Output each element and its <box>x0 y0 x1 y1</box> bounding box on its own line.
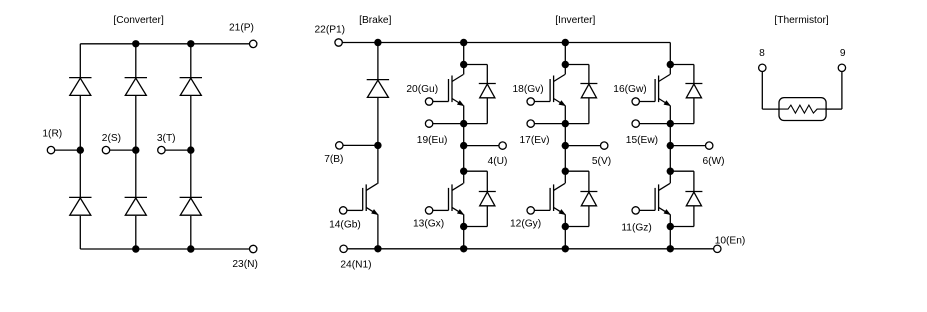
terminal 11(Gz) gate <box>632 207 639 214</box>
node W emitter junction <box>667 120 674 127</box>
wire W lower IGBT emitter stub <box>669 214 671 226</box>
svg-text:5(V): 5(V) <box>592 156 611 167</box>
wire V lower diode branch top <box>565 170 589 172</box>
wire thermistor left <box>761 72 763 110</box>
svg-text:3(T): 3(T) <box>157 133 176 144</box>
wire U upper IGBT emitter stub <box>463 106 465 124</box>
terminal 22(P1) <box>335 39 342 46</box>
svg-text:19(Eu): 19(Eu) <box>417 135 448 146</box>
wire U upper IGBT collector stub <box>463 65 465 75</box>
node U lower emitter junction <box>460 223 467 230</box>
wire converter S leg upper <box>135 44 137 78</box>
wire thermistor right <box>826 108 842 110</box>
terminal 15(Ew) emitter sense <box>632 120 639 127</box>
terminal 20(Gu) gate <box>425 98 432 105</box>
wire W upper IGBT collector stub <box>669 65 671 75</box>
wire V leg from P rail <box>564 43 566 65</box>
svg-text:15(Ew): 15(Ew) <box>626 135 658 146</box>
svg-text:22(P1): 22(P1) <box>315 25 346 36</box>
wire W leg emitter to phase node <box>669 124 671 146</box>
node converter N rail junction S leg <box>132 245 139 252</box>
wire converter S leg middle <box>135 95 137 197</box>
terminal 18(Gv) gate <box>527 98 534 105</box>
terminal 13(Gx) gate <box>425 207 432 214</box>
wire converter S leg bottom <box>135 216 137 249</box>
node N rail junction V leg <box>562 245 569 252</box>
svg-text:2(S): 2(S) <box>102 133 121 144</box>
wire U lower IGBT collector stub <box>463 171 465 183</box>
svg-text:11(Gz): 11(Gz) <box>621 222 651 233</box>
wire P1 rail <box>342 42 670 44</box>
wire V upper IGBT emitter stub <box>564 106 566 124</box>
wire V upper IGBT collector stub <box>564 65 566 75</box>
terminal 24(N1) <box>340 245 347 252</box>
wire W leg to N rail <box>669 227 671 249</box>
wire V upper diode branch bottom <box>588 98 590 124</box>
wire converter R leg upper <box>79 44 81 78</box>
svg-text:24(N1): 24(N1) <box>340 260 371 271</box>
terminal 17(Ev) emitter sense <box>527 120 534 127</box>
diode freewheel upper W <box>685 84 702 98</box>
wire 1(R) to R leg <box>55 149 81 151</box>
wire U upper diode branch bottom <box>486 98 488 124</box>
wire U leg phase to lower collector <box>463 146 465 172</box>
wire converter R leg middle <box>79 95 81 197</box>
wire U leg to N rail <box>463 227 465 249</box>
terminal 5(V) phase output <box>601 142 608 149</box>
node U emitter junction <box>460 120 467 127</box>
svg-text:10(En): 10(En) <box>715 235 746 246</box>
svg-text:18(Gv): 18(Gv) <box>513 84 544 95</box>
wire converter T leg bottom <box>190 216 192 249</box>
svg-text:6(W): 6(W) <box>703 156 725 167</box>
node W phase output junction <box>667 142 674 149</box>
diode converter upper S <box>125 78 147 96</box>
node W lower collector junction <box>667 168 674 175</box>
wire 17(Ev) to emitter node <box>534 123 565 125</box>
diode freewheel lower V <box>580 192 597 206</box>
node V upper collector junction <box>562 61 569 68</box>
wire V lower diode branch bottom <box>588 206 590 227</box>
wire W phase output <box>670 145 705 147</box>
node R input junction <box>77 146 84 153</box>
terminal 2(S) <box>102 146 109 153</box>
wire converter P rail <box>80 43 249 45</box>
terminal 23(N) <box>250 245 257 252</box>
wire W leg phase to lower collector <box>669 146 671 172</box>
svg-text:21(P): 21(P) <box>229 23 254 34</box>
node W upper collector junction <box>667 61 674 68</box>
transistor IGBT lower V (12(Gy)) <box>534 183 565 214</box>
node N rail junction brake leg <box>374 245 381 252</box>
wire V phase output <box>565 145 600 147</box>
svg-text:[Converter]: [Converter] <box>113 15 164 26</box>
svg-text:[Inverter]: [Inverter] <box>555 15 595 26</box>
svg-text:14(Gb): 14(Gb) <box>329 220 361 231</box>
svg-text:[Thermistor]: [Thermistor] <box>774 15 829 26</box>
transistor IGBT lower W (11(Gz)) <box>639 183 670 214</box>
wire converter T leg middle <box>190 95 192 197</box>
terminal 14(Gb) gate <box>340 207 347 214</box>
terminal 10(En) <box>714 245 721 252</box>
terminal 19(Eu) emitter sense <box>425 120 432 127</box>
node V emitter junction <box>562 120 569 127</box>
node U upper collector junction <box>460 61 467 68</box>
svg-text:8: 8 <box>759 48 765 59</box>
wire 15(Ew) to emitter node <box>639 123 670 125</box>
svg-text:17(Ev): 17(Ev) <box>520 135 550 146</box>
terminal 8 <box>759 64 766 71</box>
wire V lower IGBT emitter stub <box>564 214 566 226</box>
wire U phase output <box>464 145 499 147</box>
wire U leg from P rail <box>463 43 465 65</box>
wire 2(S) to S leg <box>110 149 136 151</box>
node B junction <box>374 142 381 149</box>
diode freewheel upper V <box>580 84 597 98</box>
wire W upper IGBT emitter stub <box>669 106 671 124</box>
node converter N rail junction T leg <box>187 245 194 252</box>
svg-text:4(U): 4(U) <box>488 156 508 167</box>
node V lower emitter junction <box>562 223 569 230</box>
node converter P rail junction T leg <box>187 40 194 47</box>
diode freewheel lower U <box>479 192 496 206</box>
wire converter N rail <box>80 248 249 250</box>
wire V upper diode branch top <box>565 64 589 66</box>
wire U lower IGBT emitter stub <box>463 214 465 226</box>
svg-text:9: 9 <box>840 48 846 59</box>
svg-text:16(Gw): 16(Gw) <box>613 84 646 95</box>
terminal 7(B) <box>336 142 343 149</box>
svg-text:7(B): 7(B) <box>324 154 343 165</box>
diode freewheel upper U <box>479 84 496 98</box>
transistor IGBT upper W (16(Gw)) <box>639 75 670 106</box>
wire brake IGBT collector <box>377 145 379 183</box>
terminal 4(U) phase output <box>499 142 506 149</box>
diode freewheel lower W <box>685 192 702 206</box>
wire U lower diode branch top <box>464 170 488 172</box>
wire brake diode to node B <box>377 97 379 145</box>
node T input junction <box>187 146 194 153</box>
wire 3(T) to T leg <box>165 149 191 151</box>
wire converter R leg bottom <box>79 216 81 249</box>
wire 7(B) to node B <box>343 144 378 146</box>
node converter P rail junction S leg <box>132 40 139 47</box>
thermistor RT1 body <box>779 98 826 121</box>
svg-text:1(R): 1(R) <box>42 129 62 140</box>
wire U leg emitter to phase node <box>463 124 465 146</box>
node P1 rail junction U leg <box>460 39 467 46</box>
wire brake IGBT emitter <box>377 214 379 248</box>
terminal 3(T) <box>158 146 165 153</box>
node S input junction <box>132 146 139 153</box>
wire U lower diode branch bottom <box>486 206 488 227</box>
diode converter lower T <box>180 197 202 215</box>
wire W lower IGBT collector stub <box>669 171 671 183</box>
wire V leg emitter to phase node <box>564 124 566 146</box>
wire V lower IGBT collector stub <box>564 171 566 183</box>
wire V leg to N rail <box>564 227 566 249</box>
terminal 6(W) phase output <box>706 142 713 149</box>
terminal 9 <box>838 64 845 71</box>
transistor IGBT upper V (18(Gv)) <box>534 75 565 106</box>
diode converter lower S <box>125 197 147 215</box>
node N rail junction W leg <box>667 245 674 252</box>
node W lower emitter junction <box>667 223 674 230</box>
wire W lower diode branch top <box>670 170 694 172</box>
node U lower collector junction <box>460 168 467 175</box>
svg-text:23(N): 23(N) <box>232 259 257 270</box>
diode converter upper R <box>69 78 91 96</box>
wire V leg phase to lower collector <box>564 146 566 172</box>
wire U upper diode branch top <box>464 64 488 66</box>
node V lower collector junction <box>562 168 569 175</box>
wire W leg from P rail <box>669 43 671 65</box>
terminal 21(P) <box>250 40 257 47</box>
transistor IGBT brake Gb <box>347 183 378 214</box>
node U phase output junction <box>460 142 467 149</box>
wire N1 rail <box>347 248 713 250</box>
wire W upper diode branch top <box>670 64 694 66</box>
svg-text:20(Gu): 20(Gu) <box>406 84 438 95</box>
diode converter lower R <box>69 197 91 215</box>
diode brake D7 <box>367 80 389 98</box>
wire converter T leg upper <box>190 44 192 78</box>
diode converter upper T <box>180 78 202 96</box>
terminal 12(Gy) gate <box>527 207 534 214</box>
wire brake leg upper <box>377 43 379 80</box>
transistor IGBT lower U (13(Gx)) <box>433 183 464 214</box>
node P1 rail junction V leg <box>562 39 569 46</box>
wire W lower diode branch bottom <box>693 206 695 227</box>
svg-text:12(Gy): 12(Gy) <box>510 218 541 229</box>
wire 19(Eu) to emitter node <box>433 123 464 125</box>
terminal 16(Gw) gate <box>632 98 639 105</box>
wire W upper diode branch bottom <box>693 98 695 124</box>
node P1 rail junction brake leg <box>374 39 381 46</box>
node N rail junction U leg <box>460 245 467 252</box>
svg-text:[Brake]: [Brake] <box>359 15 391 26</box>
node V phase output junction <box>562 142 569 149</box>
svg-text:13(Gx): 13(Gx) <box>413 218 444 229</box>
transistor IGBT upper U (20(Gu)) <box>433 75 464 106</box>
terminal 1(R) <box>47 146 54 153</box>
